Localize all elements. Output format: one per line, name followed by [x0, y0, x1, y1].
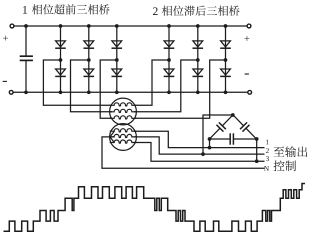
junction dot cap left node: [208, 137, 212, 141]
diode D21a (upper): [164, 41, 175, 48]
junction dot bridge 1 leg 3 mid: [115, 58, 119, 62]
T1 primary winding 3 coil: [110, 116, 137, 119]
label line 3: [266, 156, 269, 161]
wire bridge 1 phase 3 to T1 winding 3 left: [100, 60, 117, 118]
junction dot C1 bottom: [24, 90, 28, 94]
capacitor C4 (horizontal): [230, 133, 233, 144]
junction dot bridge 2 leg 3 top: [224, 24, 228, 28]
junction dot bridge 1 leg 2 mid: [87, 58, 91, 62]
wire bridge 2 phase 2 to T1 winding 2 right: [134, 60, 198, 112]
T1 secondary winding 1 coil: [110, 129, 137, 132]
wire bridge 1 leg 3 vertical: [116, 26, 118, 92]
junction dot bridge 2 leg 1 bottom: [167, 90, 171, 94]
junction dot bridge 1 leg 2 top: [87, 24, 91, 28]
label − left: [3, 80, 7, 82]
label: bridge 1 number: [23, 6, 27, 14]
label: bridge 2 number: [153, 7, 158, 15]
label 控制 (control): [274, 160, 296, 171]
wire bridge 2 leg 3 vertical: [225, 26, 227, 92]
junction dot cap right node: [255, 137, 259, 141]
label line 2: [266, 148, 269, 153]
label: bridge 2 title 相位滞后三相桥: [162, 6, 240, 16]
junction dot bridge 1 leg 1 bottom: [59, 90, 63, 94]
terminal left −: [9, 90, 13, 94]
capacitor C3 (right diagonal): [230, 112, 260, 143]
transformer T1 secondary circle: [110, 124, 137, 151]
label + right: [245, 36, 250, 41]
label − right: [245, 73, 249, 75]
wire bridge 1 phase 1 to T1 winding 1 left: [43, 60, 112, 105]
wire bridge 2 leg 2 vertical: [197, 26, 199, 92]
junction dot bridge 2 leg 3 bottom: [224, 90, 228, 94]
terminal right −: [248, 90, 252, 94]
wire cap network right node to line 3: [256, 139, 258, 161]
wire cap network apex to line 2: [203, 115, 233, 154]
junction dot bridge 1 leg 1 top: [59, 24, 63, 28]
label + left: [3, 36, 8, 41]
junction dot bridge 2 leg 1 mid: [167, 58, 171, 62]
wire output line 1 from T1 winding 1: [134, 131, 265, 147]
junction dot bridge 1 leg 2 bottom: [87, 90, 91, 94]
wire T1 secondary star point fan: [110, 131, 114, 142]
wire bridge 2 leg 1 vertical: [168, 26, 170, 92]
diode D12a (upper): [84, 41, 95, 48]
wire bridge 2 phase 3 to T1 winding 3 right: [134, 60, 226, 118]
diode D11b (lower): [55, 69, 66, 76]
label 至输出 (to output): [274, 146, 308, 157]
junction dot C1 top: [24, 24, 28, 28]
junction dot bridge 1 leg 3 top: [115, 24, 119, 28]
terminal right +: [247, 24, 251, 28]
diode D23b (lower): [220, 69, 231, 76]
diode D21b (lower): [164, 69, 175, 76]
junction dot bridge 2 leg 2 bottom: [196, 90, 200, 94]
junction dot cap apex node: [231, 113, 235, 117]
T1 secondary winding 2 coil: [110, 134, 137, 137]
wire bridge 1 leg 2 vertical: [88, 26, 90, 92]
transformer T1 primary circle: [110, 98, 137, 125]
T1 secondary winding 3 coil: [110, 140, 137, 143]
wire bridge 1 phase 2 to T1 winding 2 left: [71, 60, 113, 112]
wire cap C1 bottom lead: [25, 60, 27, 92]
junction dot line3 tap: [255, 159, 259, 163]
T1 primary winding 2 coil: [110, 109, 137, 112]
wire bridge 2 phase 1 to T1 winding 1 right: [134, 60, 169, 105]
diode D13b (lower): [112, 69, 123, 76]
label: bridge 1 title 相位超前三相桥: [32, 4, 110, 14]
diode D22a (upper): [193, 41, 204, 48]
label line 1: [266, 140, 269, 145]
wire bottom DC rail (−): [13, 91, 248, 93]
junction dot bridge 2 leg 2 mid: [196, 58, 200, 62]
junction dot bridge 2 leg 3 mid: [224, 58, 228, 62]
junction dot bridge 2 leg 2 top: [196, 24, 200, 28]
diode D11a (upper): [55, 41, 66, 48]
diode D13a (upper): [112, 41, 123, 48]
junction dot bridge 1 leg 3 bottom: [115, 90, 119, 94]
wire output line 3 from T1 winding 3: [134, 143, 265, 162]
wire capacitor C4 leads: [210, 138, 257, 140]
wire output line 2 from T1 winding 2: [134, 137, 265, 154]
wire cap network left node to line 1: [209, 139, 211, 148]
junction dot bridge 2 leg 1 top: [167, 24, 171, 28]
diode D23a (upper): [220, 41, 231, 48]
wire top DC rail (+): [14, 25, 247, 27]
capacitor C1: [20, 56, 33, 60]
diode D22b (lower): [193, 69, 204, 76]
junction dot line1 tap: [208, 146, 212, 150]
wire neutral line N from star point: [102, 137, 265, 168]
wire cap C1 top lead: [25, 26, 27, 56]
T1 primary winding 1 coil: [110, 103, 137, 106]
output stepped waveform: [4, 184, 306, 232]
diode D12b (lower): [84, 69, 95, 76]
capacitor C2 (left diagonal): [206, 112, 236, 143]
terminal left +: [10, 24, 14, 28]
wire bridge 1 leg 1 vertical: [60, 26, 62, 92]
junction dot bridge 1 leg 1 mid: [59, 58, 63, 62]
label line N: [264, 166, 269, 171]
junction dot line2 tap: [201, 152, 205, 156]
